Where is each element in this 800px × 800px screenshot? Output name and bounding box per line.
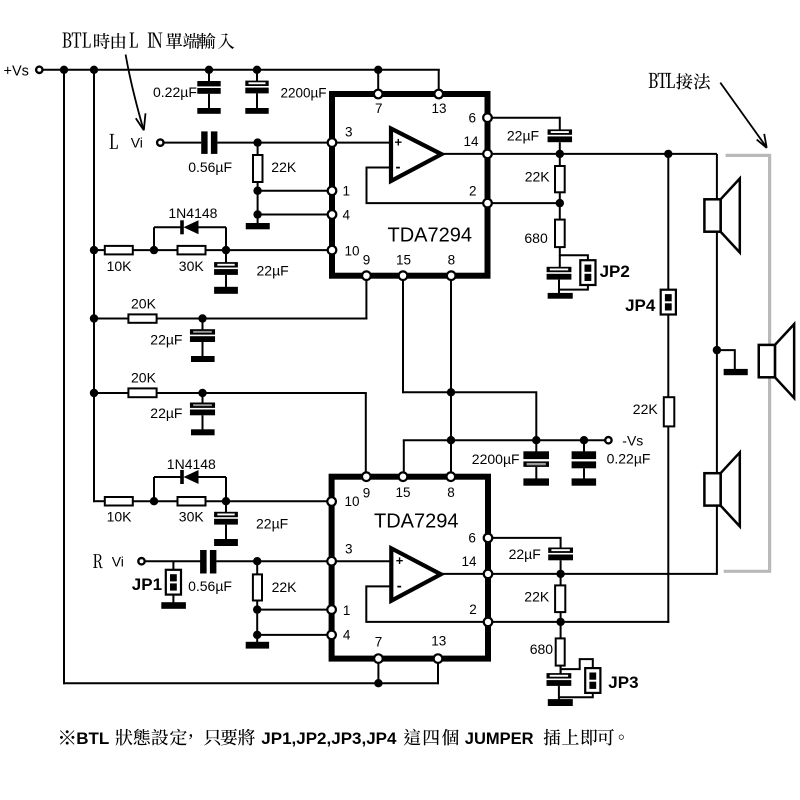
- junction output 22uF upper: [556, 150, 564, 158]
- wire 22uF row1 stem: [202, 319, 204, 330]
- svg-text:1: 1: [343, 603, 351, 618]
- svg-text:2200µF: 2200µF: [281, 86, 327, 101]
- svg-text:2200µF: 2200µF: [472, 451, 520, 467]
- wire 22uF row2 stem: [202, 393, 204, 403]
- resistor 10K lower: [105, 497, 133, 506]
- wire pin13 lower stub: [437, 662, 439, 684]
- wire pin3 to opamp lower: [332, 560, 392, 562]
- svg-text:22µF: 22µF: [507, 127, 539, 143]
- svg-text:Vi: Vi: [131, 134, 143, 150]
- wire 0.22uF -Vs to ground: [583, 468, 585, 479]
- ground JP3: [548, 699, 573, 706]
- svg-text:13: 13: [431, 634, 446, 649]
- svg-text:2: 2: [469, 183, 477, 198]
- svg-text:1: 1: [343, 184, 351, 199]
- svg-text:8: 8: [447, 485, 455, 500]
- annotation BTL L IN single-ended input: [62, 33, 234, 50]
- pin 9 lower: [362, 472, 371, 481]
- svg-text:22K: 22K: [524, 588, 550, 604]
- pin 15 lower: [399, 472, 408, 481]
- arrow BTL annotation: [720, 83, 766, 147]
- wire pin8 upper column: [450, 280, 452, 472]
- wire 22K fb lower bottom: [560, 612, 562, 622]
- svg-text:0.56µF: 0.56µF: [188, 159, 232, 175]
- svg-text:14: 14: [462, 554, 478, 569]
- junction 22K-680 lower: [556, 618, 564, 626]
- wire 680 lower bottom: [560, 666, 562, 674]
- pin 15 upper: [399, 271, 408, 280]
- wire 22uF lower diode to ground: [225, 525, 227, 540]
- resistor 10K upper: [105, 246, 133, 255]
- pin 13 lower: [434, 654, 443, 663]
- wire JP2 cap stem: [559, 255, 561, 267]
- wire pin9 stub down: [365, 280, 367, 319]
- wire pin7 stub: [377, 70, 379, 90]
- junction 22K input R: [253, 557, 261, 565]
- wire to pin1 lower: [257, 609, 331, 611]
- wire 10K to 30K upper: [133, 249, 178, 251]
- ground 0.22uF -Vs: [572, 478, 597, 485]
- wire 10K to 30K lower: [133, 500, 178, 502]
- wire to pin4 upper: [258, 214, 332, 216]
- junction -Vs pin8: [447, 436, 455, 444]
- wire 22K L top stem: [257, 143, 259, 155]
- capacitor 2200uF -Vs: [523, 451, 549, 459]
- wire rail corner to 10K lower: [94, 500, 105, 502]
- pin 14 upper: [483, 150, 492, 159]
- wire pin2 lower line: [488, 621, 669, 623]
- label R channel: [93, 554, 103, 568]
- capacitor 22uF pin6 upper: [548, 129, 573, 134]
- wire diode stub left lower: [153, 477, 155, 501]
- svg-text:30K: 30K: [179, 508, 205, 524]
- terminal L Vi: [157, 139, 163, 145]
- ground JP2: [548, 293, 573, 299]
- svg-text:-: -: [397, 577, 402, 594]
- wire pin15 upper to -Vs corner: [403, 392, 536, 440]
- pin 10 upper: [328, 246, 337, 255]
- svg-text:4: 4: [343, 628, 351, 643]
- junction 10K-30K upper: [150, 246, 158, 254]
- pin 14 lower: [484, 570, 493, 579]
- junction 22K input L: [253, 138, 261, 146]
- ground 2200uF top: [245, 108, 268, 114]
- wire pin6 lower: [488, 537, 561, 539]
- ground JP1: [161, 602, 186, 609]
- svg-text:22µF: 22µF: [150, 405, 182, 421]
- wire speaker1 to junction: [716, 231, 718, 475]
- capacitor 22uF row1: [190, 329, 215, 334]
- wire diode stub right upper: [225, 227, 227, 250]
- pin 3 upper: [328, 138, 337, 147]
- speaker R: [721, 452, 740, 526]
- svg-text:1N4148: 1N4148: [168, 205, 217, 221]
- wire JP3 top link: [561, 659, 593, 669]
- svg-text:22µF: 22µF: [256, 515, 288, 531]
- wire 22K R bottom stem: [256, 601, 258, 636]
- junction pin7 bottom rail: [374, 679, 382, 687]
- wire 0.22uF -Vs stem: [583, 440, 585, 452]
- wire pin3 to opamp upper: [332, 142, 390, 144]
- speaker L: [721, 179, 740, 253]
- capacitor 0.56uF L: [201, 131, 207, 154]
- wire left rail: [63, 69, 65, 684]
- wire bottom rail: [63, 682, 439, 684]
- svg-text:10: 10: [345, 243, 360, 258]
- svg-text:2: 2: [469, 602, 477, 617]
- wire pin2 upper: [488, 202, 560, 204]
- svg-text:20K: 20K: [131, 296, 157, 312]
- wire opamp out upper: [442, 153, 488, 155]
- junction 20K row2 cap: [198, 389, 206, 397]
- junction top rail B: [90, 66, 98, 74]
- wire 22uF row1 to ground: [202, 342, 204, 357]
- wire 22uF pin6 lower stem: [560, 537, 562, 548]
- svg-text:9: 9: [363, 485, 371, 500]
- capacitor 22uF JP3: [547, 673, 572, 678]
- svg-text:1N4148: 1N4148: [167, 456, 216, 472]
- wire L Vi to cap: [164, 142, 202, 144]
- svg-text:+: +: [395, 134, 403, 149]
- wire R Vi to cap: [145, 560, 202, 562]
- wire 30K to pin10 upper: [206, 249, 333, 251]
- wire JP3 bottom link: [560, 693, 593, 698]
- label L channel: [109, 134, 117, 149]
- capacitor 22uF JP2: [547, 267, 572, 272]
- svg-text:JP3: JP3: [608, 673, 638, 692]
- wire JP1 stem: [172, 561, 174, 570]
- resistor 680 upper: [555, 220, 565, 248]
- terminal +Vs: [36, 67, 42, 73]
- wire 0.22uF stem: [208, 70, 210, 82]
- wire 680 upper stem: [559, 203, 561, 220]
- wire 22K fb upper bottom: [559, 192, 561, 203]
- junction 20K row1 cap: [198, 314, 206, 322]
- jumper JP1: [166, 570, 181, 595]
- wire diode stub left upper: [153, 227, 155, 250]
- wire opamp out lower: [441, 573, 488, 575]
- pin 8 upper: [447, 271, 456, 280]
- wire JP2 top link: [560, 255, 588, 261]
- pin 1 lower: [327, 605, 336, 614]
- wire mid ground link: [717, 350, 735, 369]
- junction rail 20K row2: [90, 389, 98, 397]
- junction pin7 stub: [374, 66, 382, 74]
- note bottom jumper setting chinese: [60, 729, 624, 746]
- ground speaker mid: [724, 369, 748, 375]
- wire top rail +Vs: [43, 69, 440, 71]
- svg-text:4: 4: [343, 207, 351, 222]
- pin 10 lower: [327, 497, 336, 506]
- resistor 22K fb upper: [555, 166, 565, 192]
- pin 2 lower: [484, 618, 493, 627]
- wire second left rail: [93, 70, 95, 502]
- svg-text:+Vs: +Vs: [4, 63, 29, 79]
- terminal R Vi: [138, 558, 144, 564]
- svg-text:15: 15: [396, 485, 411, 500]
- svg-text:10: 10: [345, 494, 360, 509]
- junction pin8 crossing: [447, 388, 455, 396]
- svg-text:0.22µF: 0.22µF: [607, 450, 651, 466]
- wire 22K BTL down: [667, 426, 669, 623]
- jumper JP4: [661, 290, 676, 315]
- wire pin14 lower output: [488, 573, 717, 575]
- op-amp triangle upper: [391, 129, 442, 182]
- wire rail to 10K upper: [94, 249, 105, 251]
- wire JP3 cap stem: [560, 666, 562, 674]
- wire 680 lower stem: [560, 622, 562, 639]
- capacitor 0.22uF -Vs: [572, 451, 597, 459]
- svg-text:10K: 10K: [107, 258, 133, 274]
- wire to pin4 lower: [257, 634, 331, 636]
- svg-text:JP1,JP2,JP3,JP4: JP1,JP2,JP3,JP4: [261, 729, 397, 748]
- svg-text:-: -: [396, 159, 401, 176]
- svg-text:6: 6: [468, 531, 476, 546]
- wire pin7 lower stub: [377, 662, 379, 684]
- wire 0.56uF L to pin3: [217, 142, 332, 144]
- ground 22uF lower diode: [214, 539, 238, 546]
- svg-text:7: 7: [375, 101, 383, 116]
- wire 22uF pin6 lower out: [560, 560, 562, 574]
- ground 22uF row2: [191, 429, 215, 435]
- svg-text:+: +: [396, 553, 404, 568]
- wire speaker3 to pin14 lower line: [716, 505, 718, 575]
- junction pin1 R: [253, 605, 261, 613]
- pin 4 upper: [328, 210, 337, 219]
- wire output to JP4: [667, 154, 669, 291]
- capacitor 22uF lower diode: [214, 512, 238, 517]
- wire diode right lower: [199, 476, 227, 478]
- wire rail to 20K row1: [94, 318, 128, 320]
- op-amp U2 TDA7294 lower body: [332, 477, 488, 659]
- wire diode right upper: [199, 226, 227, 228]
- junction rail 10K upper: [90, 246, 98, 254]
- junction top rail A: [60, 66, 68, 74]
- junction rail 20K row1: [90, 314, 98, 322]
- wire to pin1 upper: [258, 190, 332, 192]
- wire 22K L bottom stem: [257, 182, 259, 216]
- svg-text:0.56µF: 0.56µF: [188, 578, 232, 594]
- svg-text:BTL: BTL: [76, 729, 109, 748]
- op-amp U1 TDA7294 upper body: [332, 94, 488, 276]
- svg-text:9: 9: [363, 253, 371, 268]
- resistor 20K row1: [128, 314, 156, 322]
- junction output JP4 branch: [664, 150, 672, 158]
- ground 0.22uF top: [197, 108, 220, 114]
- wire 22K R top stem: [256, 561, 258, 574]
- wire 30K to pin10 lower: [206, 500, 332, 502]
- wire 20K row2 to pin9 lower: [157, 392, 367, 394]
- pin 3 lower: [327, 557, 336, 566]
- ground 22K input L: [246, 223, 270, 229]
- junction 0.22uF cap top: [205, 66, 213, 74]
- junction output 22uF lower: [556, 570, 564, 578]
- resistor 22K fb lower: [555, 585, 565, 612]
- op-amp triangle lower: [391, 548, 441, 600]
- wire 22uF stem lower diode: [225, 501, 227, 512]
- capacitor 2200uF top: [245, 81, 268, 86]
- wire rail to 20K row2: [94, 392, 128, 394]
- wire 2200uF -Vs to ground: [535, 467, 537, 479]
- junction 30K-cap lower: [222, 497, 230, 505]
- jumper JP2: [580, 260, 595, 285]
- wire 22uF upper diode to ground: [225, 275, 227, 287]
- wire 0.22uF to ground: [208, 94, 210, 109]
- resistor 22K input L: [253, 155, 263, 182]
- ground 2200uF -Vs: [523, 478, 549, 485]
- wire output to speaker1: [716, 154, 718, 200]
- svg-text:14: 14: [464, 134, 480, 149]
- wire to ground L input: [257, 215, 259, 224]
- wire -Vs to pin15 lower: [403, 440, 405, 472]
- wire pin13 stub: [438, 70, 440, 90]
- pin 6 lower: [484, 534, 493, 543]
- wire JP4 to 22K: [667, 314, 669, 397]
- ground 22uF upper diode: [214, 287, 238, 294]
- ground 22uF row1: [191, 356, 215, 362]
- junction pin4 L: [253, 210, 261, 218]
- wire feedback upper: [367, 168, 488, 204]
- pin 8 lower: [447, 472, 456, 481]
- diode 1N4148 lower: [180, 470, 184, 484]
- svg-text:Vi: Vi: [112, 554, 124, 570]
- wire 22K fb lower top: [560, 574, 562, 586]
- jumper JP3: [585, 668, 600, 693]
- svg-text:8: 8: [448, 253, 456, 268]
- svg-text:JUMPER: JUMPER: [465, 730, 534, 748]
- wire 22uF pin6 upper stem: [559, 117, 561, 130]
- pin 7 lower: [374, 654, 383, 663]
- svg-text:680: 680: [530, 641, 554, 657]
- ground 22K input R: [246, 642, 269, 649]
- capacitor 22uF row2: [190, 403, 215, 408]
- pin 6 upper: [483, 113, 492, 122]
- svg-text:20K: 20K: [131, 370, 157, 386]
- pin 13 upper: [434, 90, 443, 99]
- wire 0.56uF R to pin3: [216, 560, 331, 562]
- diode 1N4148 upper: [180, 220, 184, 234]
- pin 7 upper: [374, 90, 383, 99]
- resistor 680 lower: [556, 638, 565, 665]
- resistor 22K BTL: [664, 397, 675, 426]
- svg-text:3: 3: [345, 542, 353, 557]
- svg-text:7: 7: [375, 634, 383, 649]
- svg-text:-Vs: -Vs: [622, 433, 643, 449]
- terminal -Vs: [605, 437, 611, 443]
- pin 1 upper: [328, 186, 337, 195]
- svg-text:22µF: 22µF: [150, 332, 182, 348]
- resistor 22K input R: [253, 574, 262, 600]
- wire 22uF stem upper diode: [225, 250, 227, 262]
- annotation BTL connection: [649, 73, 711, 89]
- wire 2200uF to ground: [256, 93, 258, 108]
- wire BTL bracket (bridge-tied load): [724, 155, 770, 571]
- capacitor 22uF upper diode: [214, 262, 238, 267]
- junction pin1 L: [253, 187, 261, 195]
- svg-text:JP1: JP1: [132, 575, 162, 594]
- wire 2200uF stem: [256, 70, 258, 82]
- pin 2 upper: [483, 199, 492, 208]
- wire -Vs rail: [403, 439, 606, 441]
- svg-text:22K: 22K: [525, 169, 551, 185]
- svg-text:0.22µF: 0.22µF: [153, 84, 197, 100]
- svg-text:JP4: JP4: [625, 296, 656, 315]
- junction speaker mid: [713, 346, 721, 354]
- svg-text:TDA7294: TDA7294: [374, 511, 459, 533]
- wire 2200uF -Vs stem: [535, 440, 537, 452]
- arrow annotation to L input: [126, 55, 144, 130]
- capacitor 22uF pin6 lower: [548, 548, 573, 553]
- wire diode stub right lower: [225, 477, 227, 501]
- wire pin9 lower stub: [365, 393, 367, 474]
- svg-text:22µF: 22µF: [257, 263, 289, 279]
- svg-text:13: 13: [432, 101, 447, 116]
- wire JP3 cap to ground: [558, 686, 560, 700]
- capacitor 0.56uF R: [200, 550, 207, 574]
- speaker BTL center: [775, 324, 794, 398]
- wire 22uF pin6 upper out: [559, 142, 561, 154]
- wire 22uF row2 to ground: [202, 415, 204, 430]
- svg-text:10K: 10K: [107, 508, 133, 524]
- resistor 30K upper: [178, 246, 206, 255]
- wire JP2 cap to ground: [558, 280, 560, 294]
- svg-text:22K: 22K: [633, 401, 659, 417]
- wire pin14 upper output: [488, 153, 717, 155]
- pin 9 upper: [362, 271, 371, 280]
- svg-text:TDA7294: TDA7294: [388, 225, 473, 247]
- svg-text:22µF: 22µF: [509, 546, 541, 562]
- junction 30K-cap upper: [222, 246, 230, 254]
- svg-text:JP2: JP2: [600, 262, 630, 281]
- wire pin6 upper: [488, 117, 560, 119]
- svg-text:15: 15: [396, 253, 411, 268]
- svg-text:22K: 22K: [271, 159, 297, 175]
- svg-text:22K: 22K: [272, 579, 298, 595]
- junction 22K-680 upper: [556, 199, 564, 207]
- svg-text:3: 3: [345, 125, 353, 140]
- resistor 30K lower: [178, 497, 206, 506]
- pin 4 lower: [327, 631, 336, 640]
- wire pin15 upper stub: [402, 280, 404, 393]
- wire diode left lower: [154, 476, 182, 478]
- junction pin4 R: [253, 631, 261, 639]
- resistor 20K row2: [128, 388, 156, 397]
- wire 680 upper bottom: [559, 247, 561, 256]
- wire 20K row1 to pin9: [157, 318, 368, 320]
- junction -Vs 0.22uF: [580, 436, 588, 444]
- junction 10K-30K lower: [150, 497, 158, 505]
- wire diode left upper: [154, 226, 182, 228]
- junction -Vs 2200uF: [532, 436, 540, 444]
- wire feedback lower: [366, 586, 488, 622]
- junction 2200uF cap top: [253, 66, 261, 74]
- svg-text:6: 6: [469, 110, 477, 125]
- wire to ground R input: [256, 635, 258, 642]
- wire JP2 bottom link: [559, 285, 588, 290]
- wire JP1 to ground: [172, 595, 174, 603]
- svg-text:30K: 30K: [179, 258, 205, 274]
- svg-text:680: 680: [524, 230, 548, 246]
- capacitor 0.22uF top: [197, 81, 220, 86]
- wire 22K fb upper top: [559, 154, 561, 166]
